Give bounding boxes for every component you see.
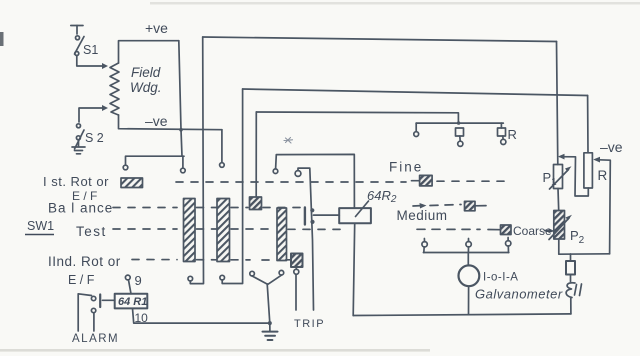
wire galvanometer top (467, 253, 469, 266)
wire relay contact bus (416, 122, 503, 124)
svg-text:S1: S1 (83, 43, 98, 57)
svg-text:9: 9 (135, 273, 142, 288)
switch S2 (75, 124, 85, 149)
node contact b (181, 168, 186, 173)
svg-text:R: R (508, 127, 517, 142)
svg-text:I st. Rot or: I st. Rot or (43, 174, 109, 189)
ground under S2 (72, 140, 85, 154)
wire alarm left lead (78, 294, 91, 331)
wafer switch SW1 section 3 (277, 208, 287, 261)
resistor (meter series) (566, 261, 575, 275)
wire top bus 3 (256, 112, 458, 123)
svg-text:Ba l ance: Ba l ance (48, 201, 113, 216)
switch S1 (71, 26, 84, 56)
wire top bus 2 (243, 89, 588, 96)
alarm contact lower (91, 308, 95, 312)
wire trip left lead (295, 274, 297, 310)
dashed line IInd rotor row (132, 259, 291, 262)
svg-text:64 R1: 64 R1 (118, 296, 147, 308)
svg-text:–ve: –ve (145, 113, 168, 129)
wire +ve rail (119, 41, 179, 63)
wire P2 bottom loop (559, 239, 610, 254)
node junction -ve/right edge (179, 128, 183, 132)
dashed line medium row (413, 205, 461, 207)
contact block Ist rotor (121, 178, 143, 188)
wire loop over to 64R2 coil (276, 154, 355, 208)
svg-text:ALARM: ALARM (72, 333, 119, 345)
wire S1 to field winding tap (77, 56, 102, 67)
node contact i (wafer3 top) (273, 169, 278, 174)
node tap coarse (506, 241, 511, 246)
svg-text:E / F: E / F (68, 273, 95, 287)
wire bus2 right leg down to R (587, 96, 589, 153)
resistor R (right) (584, 153, 593, 188)
contact 9 (125, 275, 130, 280)
wire bar to box (103, 299, 115, 301)
svg-text:Test: Test (76, 224, 107, 239)
svg-text:Fine: Fine (389, 160, 423, 175)
wire top bus 1 (203, 37, 557, 42)
wire stub to contact b (182, 156, 184, 168)
wire trip rail (298, 168, 314, 310)
alarm contact upper (91, 296, 95, 300)
contact block fine (420, 175, 433, 186)
wire P1 to P2 (557, 189, 560, 211)
wafer switch SW1 section 1 (184, 199, 196, 262)
wire contacts m n to ground (252, 275, 281, 284)
node tap medium (466, 242, 471, 247)
wire P1 wiper link to R bottom (560, 157, 588, 196)
node contact a (123, 165, 128, 170)
node junction bus3 (457, 121, 460, 124)
svg-text:S 2: S 2 (85, 131, 104, 145)
node contact h (501, 139, 506, 144)
wire -ve rail (119, 115, 222, 130)
dashed line balance row (113, 207, 300, 209)
contact block IInd rotor (291, 254, 303, 268)
wire bus3 left leg to balance contact rect (255, 112, 257, 197)
wire bar to coil box (314, 214, 340, 216)
svg-text:IInd. Rot or: IInd. Rot or (48, 254, 121, 269)
meter coil Ell (566, 283, 575, 298)
node contact o (IInd block) (294, 269, 299, 274)
label leader 64R2 (356, 201, 369, 217)
svg-text:Galvanometer: Galvanometer (475, 287, 563, 302)
svg-text:TRIP: TRIP (294, 318, 325, 330)
wire lower tap to S2 (79, 108, 102, 122)
svg-text:Wdg.: Wdg. (130, 80, 162, 95)
relay armature square 1 (456, 128, 464, 136)
wire alarm right lead (93, 313, 95, 331)
relay contact bar 64R2 (304, 208, 306, 225)
wire bus1 left leg down to contact (190, 37, 203, 284)
wire contact pair off -ve (126, 156, 185, 165)
top edge smudge (150, 2, 640, 5)
svg-text:10: 10 (135, 311, 149, 325)
wafer switch SW1 section 2 (217, 199, 230, 262)
contact block balance (250, 197, 262, 210)
relay armature square 2 (R) (498, 128, 506, 136)
stray mark x (284, 138, 293, 144)
node contact d (188, 276, 193, 281)
galvanometer G1 (459, 265, 480, 286)
potentiometer P1 (554, 165, 563, 189)
wire bus2 left leg down to contact (222, 89, 242, 284)
svg-text:Coarse: Coarse (513, 224, 552, 238)
svg-text:Medium: Medium (397, 208, 448, 223)
ground symbol (main) (263, 332, 278, 340)
wire fine/medium/coarse tap bus (423, 252, 508, 254)
contact block medium (465, 201, 476, 211)
field winding (zigzag resistor) (110, 63, 119, 115)
wire R wiper link down (596, 160, 611, 254)
node contact c (220, 163, 225, 168)
contact block coarse (501, 225, 512, 235)
wire ground stem (267, 284, 270, 331)
wire resistor to coil (570, 275, 572, 282)
left edge mark (0, 32, 4, 46)
wire stub to relay contact f (415, 123, 417, 132)
wire 9 to relay 64R1 (129, 280, 132, 294)
node junction ground/alarm (268, 321, 272, 325)
svg-text:Field: Field (131, 65, 161, 80)
dashed line Ist rotor row (176, 181, 406, 183)
wire stub to resistor (570, 254, 572, 261)
svg-text:+ve: +ve (145, 20, 168, 36)
coarse arrow to P2 (545, 230, 552, 232)
wire coil to bottom bus (570, 299, 572, 314)
svg-text:I-o-I-A: I-o-I-A (483, 272, 518, 284)
bottom edge smudge (0, 349, 430, 352)
wire galvanometer bottom (468, 286, 470, 314)
node contact m (250, 271, 255, 276)
node contact g (458, 141, 463, 146)
node contact e (220, 275, 225, 280)
wire bottom bus (353, 314, 571, 316)
node contact n (279, 270, 284, 275)
wire terminal 10 (133, 308, 270, 323)
node tap fine (422, 242, 427, 247)
node junction l (310, 220, 314, 224)
wire -ve end down (221, 130, 223, 163)
wire coil box down to bottom bus (353, 223, 355, 315)
node contact f (414, 132, 419, 137)
wire bus1 right leg down to P1 (557, 42, 558, 165)
svg-text:–ve: –ve (600, 139, 623, 155)
relay coil 64R2 box (339, 208, 371, 223)
dashed line test / coarse row (113, 228, 340, 230)
svg-text:R: R (598, 168, 608, 183)
relay 64R1 box (115, 294, 148, 309)
node junction k (310, 208, 314, 212)
svg-text:SW1: SW1 (27, 219, 54, 233)
wire field right edge down to contacts (179, 41, 182, 157)
node contact j (trip rail top) (295, 171, 301, 177)
rheostat P2 (554, 211, 565, 240)
alarm contact bar (99, 295, 101, 308)
